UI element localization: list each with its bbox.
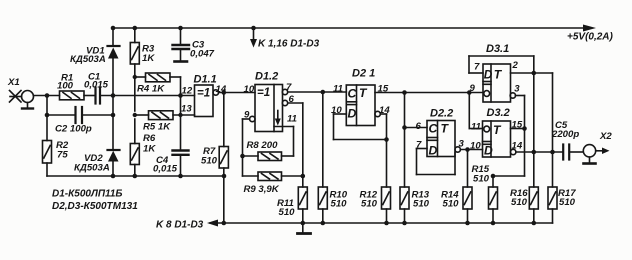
svg-text:D: D xyxy=(484,144,493,158)
svg-text:X2: X2 xyxy=(599,131,612,142)
svg-text:14: 14 xyxy=(216,84,227,95)
svg-text:C2 100p: C2 100p xyxy=(55,124,92,135)
svg-text:0,015: 0,015 xyxy=(153,164,178,175)
svg-text:K 8 D1-D3: K 8 D1-D3 xyxy=(156,220,204,231)
svg-text:T: T xyxy=(441,122,450,136)
svg-text:1K: 1K xyxy=(143,144,156,155)
svg-text:R5 1K: R5 1K xyxy=(143,122,171,133)
svg-text:9: 9 xyxy=(470,83,476,94)
svg-text:14: 14 xyxy=(512,141,523,152)
svg-text:D3.2: D3.2 xyxy=(487,107,510,119)
svg-text:510: 510 xyxy=(279,207,296,218)
svg-text:7: 7 xyxy=(416,140,422,151)
svg-text:13: 13 xyxy=(181,104,192,115)
svg-text:510: 510 xyxy=(201,156,218,167)
svg-text:+5V(0,2A): +5V(0,2A) xyxy=(567,32,614,43)
svg-text:100: 100 xyxy=(57,81,74,92)
svg-text:14: 14 xyxy=(379,105,390,116)
svg-text:510: 510 xyxy=(473,174,490,185)
svg-text:11: 11 xyxy=(471,122,481,133)
svg-text:10: 10 xyxy=(470,141,481,152)
svg-text:0,047: 0,047 xyxy=(190,49,215,60)
svg-text:510: 510 xyxy=(331,199,348,210)
svg-text:10: 10 xyxy=(244,84,255,95)
svg-text:9: 9 xyxy=(244,110,250,121)
svg-text:11: 11 xyxy=(287,114,297,125)
svg-text:КД503А: КД503А xyxy=(70,54,106,65)
svg-text:R8 200: R8 200 xyxy=(247,140,279,151)
svg-text:7: 7 xyxy=(474,62,480,73)
svg-text:K 1,16 D1-D3: K 1,16 D1-D3 xyxy=(258,39,320,50)
svg-text:12: 12 xyxy=(182,86,193,97)
svg-text:D1-К500ЛП11Б: D1-К500ЛП11Б xyxy=(52,189,122,200)
svg-text:D: D xyxy=(484,68,493,82)
svg-text:T: T xyxy=(359,86,368,100)
svg-text:X1: X1 xyxy=(7,77,20,88)
svg-text:6: 6 xyxy=(289,94,295,105)
svg-text:2: 2 xyxy=(512,60,519,71)
svg-text:7: 7 xyxy=(286,82,292,93)
svg-text:R6: R6 xyxy=(143,133,156,144)
svg-text:D: D xyxy=(348,107,357,121)
svg-text:R4 1K: R4 1K xyxy=(137,84,165,95)
svg-text:D1.2: D1.2 xyxy=(255,71,278,83)
svg-text:C: C xyxy=(429,122,438,136)
svg-text:510: 510 xyxy=(361,199,378,210)
svg-text:3: 3 xyxy=(514,84,520,95)
svg-text:510: 510 xyxy=(443,199,460,210)
svg-text:T: T xyxy=(493,123,502,137)
svg-text:10: 10 xyxy=(331,105,342,116)
svg-text:D2.2: D2.2 xyxy=(430,108,453,120)
svg-text:510: 510 xyxy=(511,197,528,208)
svg-text:=1: =1 xyxy=(197,88,210,100)
svg-text:3: 3 xyxy=(459,139,465,150)
svg-text:15: 15 xyxy=(512,120,523,131)
svg-text:1K: 1K xyxy=(142,53,155,64)
svg-text:T: T xyxy=(494,68,503,82)
svg-text:D2,D3-К500ТМ131: D2,D3-К500ТМ131 xyxy=(52,201,138,212)
svg-text:15: 15 xyxy=(378,84,389,95)
svg-text:C: C xyxy=(348,87,357,101)
svg-text:D3.1: D3.1 xyxy=(486,43,509,55)
svg-text:2200p: 2200p xyxy=(551,129,579,140)
svg-text:D: D xyxy=(429,144,438,158)
svg-text:R9 3,9K: R9 3,9K xyxy=(244,184,280,195)
svg-text:6: 6 xyxy=(416,121,422,132)
svg-text:КД503А: КД503А xyxy=(74,163,110,174)
svg-text:D2 1: D2 1 xyxy=(352,68,375,80)
svg-text:=1: =1 xyxy=(257,87,270,99)
svg-text:D1.1: D1.1 xyxy=(194,74,217,86)
svg-text:510: 510 xyxy=(559,197,576,208)
svg-text:75: 75 xyxy=(57,150,68,161)
svg-text:510: 510 xyxy=(413,199,430,210)
svg-text:11: 11 xyxy=(333,84,343,95)
svg-text:0,015: 0,015 xyxy=(84,80,109,91)
